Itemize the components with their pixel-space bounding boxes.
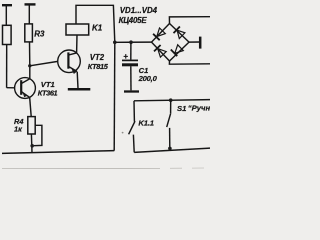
wire bridge bottom to right edge <box>169 61 210 64</box>
wire <box>5 6 7 25</box>
diode bridge VD1...VD4 <box>152 24 190 62</box>
svg-text:VD1...VD4: VD1...VD4 <box>120 6 158 15</box>
paper background <box>0 0 210 170</box>
wire <box>29 42 31 79</box>
wire relay K1 feed (top) <box>76 5 115 42</box>
wire bottom-left rail <box>2 151 114 154</box>
svg-text:+: + <box>123 52 128 61</box>
wire main vertical (+ feed) <box>113 42 116 150</box>
wire (VT1 emitter to R4) <box>30 98 32 117</box>
wire (VT1 base) <box>7 87 15 89</box>
svg-text:1к: 1к <box>14 124 23 133</box>
ground bar VT2 emitter <box>68 88 91 91</box>
svg-text:K1: K1 <box>92 24 103 33</box>
svg-text:S1: S1 <box>177 104 186 113</box>
wire <box>28 6 30 24</box>
transistor VT1 <box>15 78 36 99</box>
wire (to VT2 base) <box>30 61 58 65</box>
wire switch-box top <box>134 100 210 101</box>
diode VD2 (upper-right arm) <box>170 24 190 43</box>
scan speck <box>122 132 124 134</box>
diode VD4 (lower-right arm) <box>170 42 190 61</box>
svg-text:КТ361: КТ361 <box>38 88 58 97</box>
svg-text:K1.1: K1.1 <box>138 118 153 127</box>
wire switch-box bottom <box>134 148 210 152</box>
node junction C1 <box>129 40 133 44</box>
contact K1.1 <box>129 101 135 153</box>
transistor VT2 <box>58 50 81 74</box>
wire bridge top to right edge <box>169 17 210 24</box>
diode VD3 (lower-left arm) <box>152 42 170 61</box>
wire (relay to VT2 collector) <box>76 35 78 53</box>
switch S1 <box>167 100 171 148</box>
relay coil K1 <box>66 24 89 35</box>
node junction main <box>113 41 117 45</box>
node junction R4 bottom <box>30 144 34 148</box>
wire + rail to bridge <box>115 41 152 43</box>
svg-text:R3: R3 <box>34 29 45 38</box>
terminal bridge right <box>189 41 200 43</box>
terminal cap top-left <box>2 4 12 6</box>
node junction R3/VT1/VT2 <box>28 64 31 67</box>
scan artifact line bottom <box>2 167 160 169</box>
wire <box>6 45 8 88</box>
svg-text:200,0: 200,0 <box>138 74 158 83</box>
svg-text:КТ815: КТ815 <box>88 62 109 71</box>
terminal cap above R3 <box>25 3 36 5</box>
wire (VT2 emitter) <box>76 72 79 89</box>
diode VD1 (upper-left arm) <box>152 24 170 43</box>
resistor R2 (unlabeled, left) <box>3 25 12 44</box>
node junction S1 bottom <box>168 147 172 151</box>
svg-text:КЦ405Е: КЦ405Е <box>119 16 148 25</box>
capacitor C1 <box>122 42 139 91</box>
wire <box>30 134 33 153</box>
resistor R4 <box>28 117 35 134</box>
svg-text:“Ручн: “Ручн <box>188 104 210 113</box>
wire (R4 tap bracket) <box>34 125 42 145</box>
node junction S1 top <box>169 98 173 102</box>
resistor R3 <box>25 24 33 42</box>
